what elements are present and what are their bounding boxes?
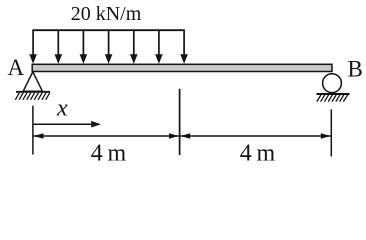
left extension tick (32, 106, 34, 155)
middle extension tick (179, 89, 181, 155)
distributed load top line (32, 29, 184, 31)
svg-text:x: x (56, 95, 68, 121)
load arrow 3 (80, 30, 88, 64)
pin support at A: ground line (16, 91, 50, 93)
dimension arrowhead left at A tick (34, 133, 44, 139)
roller support at B: circle (323, 74, 342, 93)
roller support at B: hatching (317, 95, 348, 102)
dimension arrowhead right at middle tick (169, 133, 179, 139)
svg-text:4 m: 4 m (91, 140, 127, 166)
x coordinate arrow (34, 121, 102, 128)
load arrow 4 (105, 30, 113, 64)
dimension line span 2 (middle to B) (180, 135, 331, 137)
svg-text:A: A (8, 55, 25, 80)
right extension tick (330, 109, 332, 156)
load arrow 6 (155, 30, 163, 64)
load arrow 1 (29, 30, 37, 64)
load arrow 5 (130, 30, 138, 64)
svg-text:B: B (348, 56, 363, 81)
pin support at A: hatching (15, 93, 50, 100)
load arrow 2 (55, 30, 63, 64)
dimension line span 1 (A to middle) (34, 135, 180, 137)
dimension arrowhead left at middle tick (180, 133, 190, 139)
svg-text:4 m: 4 m (240, 140, 276, 166)
beam (32, 64, 332, 71)
svg-text:20 kN/m: 20 kN/m (71, 3, 142, 25)
dimension arrowhead right at B tick (321, 133, 331, 139)
roller support at B: ground line (317, 93, 350, 95)
pin support at A: triangle (23, 72, 42, 91)
load arrow 7 (180, 30, 188, 64)
